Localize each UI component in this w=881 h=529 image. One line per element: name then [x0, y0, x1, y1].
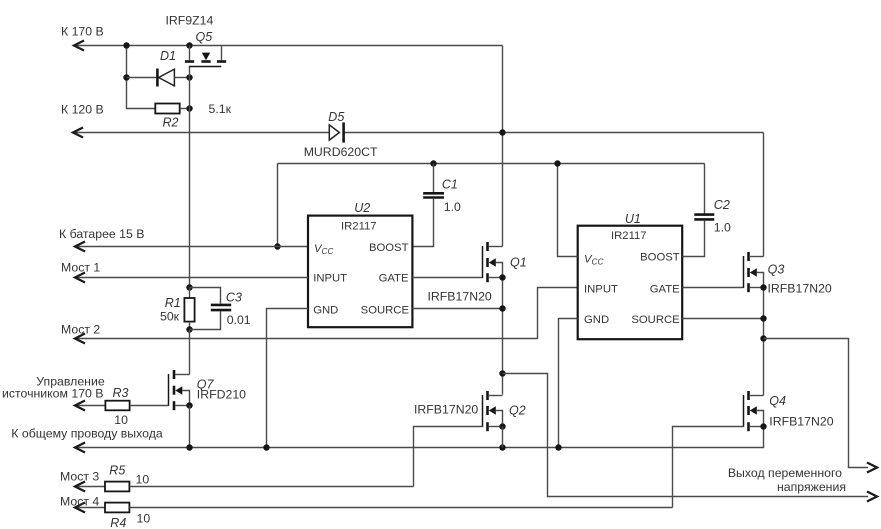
svg-text:Мост 2: Мост 2	[61, 323, 100, 337]
svg-text:Мост 4: Мост 4	[60, 495, 99, 509]
svg-text:напряжения: напряжения	[777, 480, 846, 494]
svg-text:10: 10	[136, 473, 150, 487]
svg-text:R1: R1	[165, 296, 181, 310]
svg-text:10: 10	[137, 512, 151, 526]
node junction dot output A branch	[499, 370, 505, 376]
wire gate node vertical x=189.5	[189, 78, 191, 288]
wire VCC riser x=277.5	[277, 164, 279, 247]
resistor R2 5.1к	[155, 104, 179, 114]
svg-text:R3: R3	[113, 386, 129, 400]
svg-text:1.0: 1.0	[714, 221, 731, 235]
svg-text:D1: D1	[160, 49, 176, 63]
svg-text:5.1к: 5.1к	[209, 102, 232, 116]
node 170V arrow label К 170 В	[74, 41, 83, 50]
node junction dot 277.5,246.5	[274, 243, 280, 249]
wire Q2 gate from Мост 3	[414, 427, 483, 487]
wire Q2 source drop	[502, 427, 504, 448]
transistor Q3 IRFB17N20	[744, 252, 764, 292]
node junction dot 126.5,45.5	[123, 42, 129, 48]
svg-text:GATE: GATE	[379, 273, 409, 285]
wire common output rail	[75, 427, 764, 448]
node 120V arrow label К 120 В	[73, 128, 82, 137]
svg-text:Мост 1: Мост 1	[61, 261, 100, 275]
svg-text:К общему проводу выхода: К общему проводу выхода	[11, 427, 163, 441]
svg-text:SOURCE: SOURCE	[361, 304, 410, 316]
wire 120V rail	[73, 132, 764, 134]
svg-text:источником 170 В: источником 170 В	[2, 387, 104, 401]
svg-text:10: 10	[114, 413, 128, 427]
svg-text:BOOST: BOOST	[369, 242, 409, 254]
svg-text:Q2: Q2	[509, 404, 526, 418]
wire U1 VCC riser x=557.5	[558, 164, 578, 257]
svg-text:MURD620CT: MURD620CT	[304, 145, 378, 159]
wire Q1 source column	[502, 278, 504, 395]
node junction dot 502.5,132.5	[499, 129, 505, 135]
diode D1	[127, 77, 158, 79]
node junction dot Q1 source	[499, 274, 505, 280]
wire U1 SOURCE to Q3 column	[682, 318, 763, 320]
svg-text:IRFB17N20: IRFB17N20	[769, 415, 833, 429]
resistor R3 10	[75, 405, 105, 407]
transistor Q2 IRFB17N20	[483, 391, 503, 431]
transistor Q1 IRFB17N20	[483, 242, 503, 282]
wire Q4 gate from Мост 4	[673, 427, 744, 508]
svg-text:IR2117: IR2117	[341, 221, 377, 233]
svg-text:D5: D5	[328, 110, 344, 124]
resistor R1 50к	[186, 284, 192, 290]
svg-text:Выход переменного: Выход переменного	[728, 466, 842, 480]
node junction dot 126.5,77.5	[123, 74, 129, 80]
svg-text:GND: GND	[313, 304, 338, 316]
wire Q7 source drop	[189, 406, 191, 448]
node junction dot 189.5,77.5	[186, 74, 192, 80]
svg-text:Q4: Q4	[769, 394, 786, 408]
wire output B	[764, 339, 869, 468]
svg-text:SOURCE: SOURCE	[631, 314, 680, 326]
svg-text:GATE: GATE	[650, 284, 680, 296]
diode D5 MURD620CT	[329, 125, 339, 140]
capacitor C2 1.0	[704, 164, 706, 214]
wire Мост 1 rail to U2 INPUT	[75, 277, 308, 279]
wire left column x=126.5	[127, 46, 156, 109]
resistor R4 10	[75, 507, 105, 509]
svg-text:IRFB17N20: IRFB17N20	[768, 282, 832, 296]
svg-text:BOOST: BOOST	[640, 252, 680, 264]
svg-text:К 170 В: К 170 В	[61, 25, 104, 39]
wire Q1 drain column from 170V rail	[502, 46, 504, 247]
wire 170V top rail	[74, 45, 503, 47]
svg-text:0.01: 0.01	[227, 313, 251, 327]
svg-text:Q1: Q1	[510, 256, 527, 270]
node junction dot U2 SOURCE join	[499, 305, 505, 311]
wire battery 15V rail	[75, 246, 308, 248]
svg-text:К 120 В: К 120 В	[61, 103, 104, 117]
svg-text:INPUT: INPUT	[584, 284, 618, 296]
resistor R5 10	[75, 486, 105, 488]
svg-text:1.0: 1.0	[444, 200, 461, 214]
svg-text:R2: R2	[163, 116, 179, 130]
svg-text:Q5: Q5	[196, 30, 213, 44]
svg-text:C2: C2	[714, 198, 730, 212]
svg-text:IRFD210: IRFD210	[197, 388, 246, 402]
svg-text:Q3: Q3	[768, 262, 785, 276]
wire output A	[503, 374, 869, 497]
op-amp U2 IR2117 driver box	[308, 216, 412, 328]
svg-text:INPUT: INPUT	[313, 273, 347, 285]
node output A arrow	[868, 492, 877, 501]
wire Мост 2 rail to U1 INPUT riser	[75, 288, 578, 339]
node junction dot 189.5,108.5	[186, 105, 192, 111]
transistor Q4 IRFB17N20	[744, 391, 764, 431]
svg-text:U1: U1	[625, 212, 641, 226]
svg-text:Мост 3: Мост 3	[60, 469, 99, 483]
capacitor C3 0.01	[190, 288, 221, 304]
svg-text:К батарее 15 В: К батарее 15 В	[59, 227, 144, 241]
op-amp U1 IR2117 driver box	[578, 226, 683, 340]
svg-text:IRF9Z14: IRF9Z14	[166, 14, 214, 28]
svg-text:R5: R5	[109, 463, 125, 477]
svg-text:IR2117: IR2117	[611, 230, 647, 242]
node battery arrow label К батарее 15 В	[75, 242, 84, 251]
svg-text:U2: U2	[354, 201, 370, 215]
svg-text:R4: R4	[110, 516, 126, 529]
wire U1 GND elbow	[559, 319, 578, 448]
wire 120V riser to Q3 drain	[763, 133, 765, 257]
svg-text:C1: C1	[442, 178, 458, 192]
wire Q3 source column	[763, 288, 765, 396]
svg-text:50к: 50к	[160, 310, 180, 324]
wire U2 GND elbow	[267, 309, 309, 448]
transistor Q7 IRFD210	[189, 330, 191, 375]
svg-text:IRFB17N20: IRFB17N20	[428, 290, 492, 304]
wire boost top line y=163.5	[278, 163, 705, 165]
svg-text:GND: GND	[584, 314, 609, 326]
capacitor C1 1.0	[430, 160, 436, 166]
svg-text:C3: C3	[226, 291, 242, 305]
wire U2 GATE to Q1 gate	[412, 277, 482, 279]
wire U2 SOURCE to Q1 source column	[412, 308, 502, 310]
wire U1 GATE to Q3 gate	[682, 287, 743, 289]
svg-text:IRFB17N20: IRFB17N20	[414, 403, 478, 417]
